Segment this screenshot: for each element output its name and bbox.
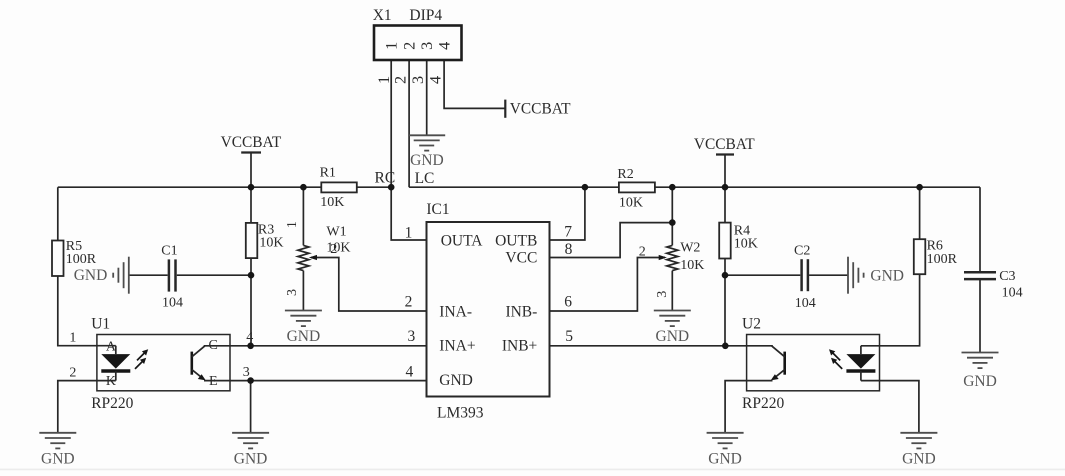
- U1 light arrow upper: [137, 349, 148, 360]
- resistor R4 body: [719, 223, 731, 259]
- wire W1 bottom to ground: [302, 271, 304, 311]
- wire W2 column: [671, 187, 673, 245]
- svg-text:VCCBAT: VCCBAT: [694, 136, 755, 153]
- wire node A ground drop: [250, 381, 252, 433]
- U2 emitter arrowhead: [771, 374, 779, 380]
- U1 light arrow lower: [135, 358, 146, 369]
- svg-text:3: 3: [409, 76, 427, 84]
- svg-text:IC1: IC1: [426, 201, 449, 218]
- svg-text:GND: GND: [410, 152, 444, 169]
- power port VCCBAT left bar: [241, 151, 261, 153]
- junction R4 C2 node: [722, 272, 729, 279]
- wire C1 left to rotated ground: [129, 274, 168, 276]
- svg-text:1: 1: [285, 221, 300, 228]
- svg-text:RP220: RP220: [91, 395, 133, 412]
- W1 wiper arrowhead: [309, 255, 317, 260]
- svg-text:GND: GND: [41, 451, 75, 468]
- svg-text:C1: C1: [161, 244, 177, 259]
- svg-text:104: 104: [162, 296, 183, 311]
- U1 emitter lead: [192, 370, 203, 379]
- svg-text:3: 3: [243, 365, 250, 380]
- svg-text:C2: C2: [794, 244, 810, 259]
- power port VCCBAT top bar: [504, 100, 506, 118]
- U2 LED triangle: [846, 354, 875, 369]
- svg-text:2: 2: [69, 366, 76, 381]
- ground symbol GND LC under X1 pin3: [408, 135, 445, 150]
- svg-text:GND: GND: [656, 328, 690, 345]
- bottom edge strip: [0, 469, 1065, 471]
- U2 emitter to outside: [747, 380, 773, 382]
- svg-text:U1: U1: [91, 316, 110, 333]
- wire IC1 pin2 to W1 wiper: [311, 258, 427, 312]
- svg-text:K: K: [106, 374, 116, 389]
- junction IC GND node: [247, 377, 254, 384]
- wire R3 column VCCBAT to INA+ node: [250, 153, 252, 346]
- svg-text:2: 2: [330, 242, 337, 257]
- wire X1 pin1 to RC node and IC1 pin1: [391, 60, 426, 241]
- resistor R6 body: [914, 239, 926, 274]
- junction W1 top node: [300, 184, 307, 191]
- svg-text:GND: GND: [439, 372, 473, 389]
- wire C3 top drop: [979, 187, 981, 272]
- wire right bus LC net: [409, 186, 980, 188]
- wire X1 pin3 to ground: [426, 60, 428, 136]
- junction INA+ node: [247, 343, 254, 350]
- junction node RC: [388, 184, 395, 191]
- svg-text:INA+: INA+: [439, 337, 475, 354]
- ground symbol bottom left-center: [232, 433, 269, 449]
- svg-text:4: 4: [427, 76, 445, 84]
- ground symbol bottom far left: [39, 433, 76, 449]
- svg-text:3: 3: [285, 289, 300, 296]
- svg-text:GND: GND: [234, 451, 268, 468]
- svg-text:5: 5: [565, 328, 573, 345]
- svg-text:VCC: VCC: [505, 250, 537, 267]
- svg-text:GND: GND: [287, 328, 321, 345]
- svg-text:4: 4: [436, 42, 454, 50]
- svg-text:1: 1: [375, 76, 393, 84]
- wire R6 column to U2 anode: [861, 187, 920, 346]
- svg-text:W1: W1: [326, 224, 346, 239]
- wire U1 collector row to IC1 pin3: [230, 345, 427, 347]
- U1 LED anode lead: [115, 346, 117, 354]
- svg-text:RP220: RP220: [742, 395, 784, 412]
- svg-text:GND: GND: [870, 267, 904, 284]
- power port VCCBAT right bar: [716, 153, 734, 155]
- svg-text:INB-: INB-: [505, 304, 537, 321]
- U2 phototransistor base bar: [783, 352, 786, 375]
- svg-text:W2: W2: [680, 241, 700, 256]
- U1 LED triangle: [101, 354, 130, 369]
- wire IC1 pin7 to LC net: [550, 187, 585, 240]
- capacitor C1 plates: [169, 259, 176, 291]
- svg-text:7: 7: [564, 224, 572, 241]
- junction VCCBAT-left R3 node: [248, 184, 255, 191]
- potentiometer W1 zigzag: [298, 245, 309, 270]
- wire W2 bottom to ground: [671, 271, 673, 311]
- svg-text:2: 2: [405, 293, 413, 310]
- svg-text:LM393: LM393: [437, 404, 484, 421]
- svg-text:100R: 100R: [66, 252, 97, 267]
- svg-text:R2: R2: [617, 167, 633, 182]
- svg-text:100R: 100R: [927, 252, 958, 267]
- svg-text:8: 8: [565, 241, 573, 258]
- svg-text:OUTB: OUTB: [495, 233, 537, 250]
- potentiometer W2 zigzag: [667, 245, 678, 270]
- wire IC1 pin5 row to U2 collector: [550, 345, 747, 347]
- U1 collector lead: [192, 346, 230, 357]
- svg-text:A: A: [106, 339, 117, 354]
- capacitor C2 plates: [802, 259, 808, 291]
- svg-text:10K: 10K: [619, 196, 643, 211]
- wire W1 column: [302, 187, 304, 245]
- svg-text:OUTA: OUTA: [441, 233, 484, 250]
- svg-text:104: 104: [1002, 286, 1023, 301]
- wire U2 cathode to ground: [861, 381, 919, 433]
- wire left bus VCCBAT rail: [58, 186, 391, 188]
- svg-text:INA-: INA-: [439, 304, 472, 321]
- svg-text:1: 1: [69, 330, 76, 345]
- wire R4 node to C2 left: [725, 274, 800, 276]
- ground symbol under W2: [654, 311, 691, 327]
- U2 light arrow lower: [831, 358, 842, 369]
- junction INB+ node: [722, 343, 729, 350]
- W2 wiper arrowhead: [659, 255, 667, 260]
- wire X1 pin2 down to LC net: [408, 60, 410, 188]
- svg-text:DIP4: DIP4: [409, 7, 442, 24]
- junction R6 node: [916, 184, 923, 191]
- rotated ground symbol right of C2: [848, 257, 864, 294]
- svg-text:LC: LC: [415, 170, 435, 187]
- svg-text:1: 1: [405, 225, 413, 242]
- resistor R3 body: [246, 223, 257, 258]
- svg-text:VCCBAT: VCCBAT: [221, 134, 282, 151]
- ground symbol bottom right-center: [707, 433, 744, 449]
- ground symbol bottom far right: [900, 433, 937, 449]
- U1 phototransistor base bar: [191, 352, 194, 375]
- U1 emitter arrowhead: [198, 374, 206, 380]
- resistor R1 body: [321, 182, 357, 192]
- svg-text:GND: GND: [902, 451, 936, 468]
- wire X1 pin4 to VCCBAT port: [444, 60, 505, 109]
- rotated ground symbol left of C1: [113, 257, 129, 294]
- svg-text:VCCBAT: VCCBAT: [510, 100, 571, 117]
- resistor R5 body: [52, 241, 64, 277]
- svg-text:10K: 10K: [734, 237, 758, 252]
- optocoupler U2 body: [747, 335, 880, 391]
- svg-text:10K: 10K: [680, 258, 704, 273]
- U2 emitter lead: [774, 370, 785, 379]
- svg-text:C: C: [209, 338, 218, 353]
- wire U1 emitter row to IC1 pin4: [230, 380, 427, 382]
- connector X1 DIP4 body: [374, 26, 462, 61]
- svg-text:R1: R1: [320, 165, 336, 180]
- wire IC1 pin6 to W2 wiper: [550, 258, 666, 312]
- svg-text:C3: C3: [999, 269, 1015, 284]
- U1 emitter to pin3: [204, 380, 230, 382]
- svg-text:U2: U2: [742, 316, 761, 333]
- svg-text:4: 4: [406, 363, 414, 380]
- junction VCCBAT-right R4 node: [722, 184, 729, 191]
- svg-text:10K: 10K: [320, 195, 344, 210]
- junction pin7 LC node: [582, 184, 589, 191]
- U1 LED cathode lead: [115, 371, 117, 381]
- wire IC1 pin8 VCC to node W2 top: [550, 223, 673, 258]
- op-amp comparator U-IC1 LM393 body: [427, 222, 550, 397]
- U2 LED cathode lead: [860, 371, 862, 381]
- svg-text:2: 2: [401, 42, 419, 50]
- svg-text:GND: GND: [963, 373, 997, 390]
- capacitor C3 plates: [964, 272, 996, 279]
- svg-text:10K: 10K: [259, 236, 283, 251]
- svg-text:104: 104: [795, 296, 816, 311]
- svg-text:3: 3: [655, 291, 670, 298]
- wire U2 emitter to ground: [725, 381, 747, 433]
- svg-text:1: 1: [383, 42, 401, 50]
- svg-text:3: 3: [408, 328, 416, 345]
- U1 LED cathode bar: [101, 369, 130, 373]
- junction VCC W2 node: [669, 219, 676, 226]
- svg-text:2: 2: [639, 245, 646, 260]
- junction C1 R3 node: [248, 272, 255, 279]
- svg-text:INB+: INB+: [502, 337, 537, 354]
- wire C3 bottom to ground: [979, 279, 981, 352]
- U2 LED anode lead: [860, 346, 862, 354]
- U2 LED cathode bar: [846, 369, 875, 373]
- svg-text:X1: X1: [373, 7, 392, 24]
- svg-text:E: E: [209, 374, 218, 389]
- wire U1 pin2 to ground: [58, 381, 116, 433]
- junction R2 W2 node: [669, 184, 676, 191]
- svg-text:GND: GND: [708, 451, 742, 468]
- resistor R2 body: [619, 182, 655, 192]
- ground symbol under C3: [962, 353, 999, 369]
- svg-text:GND: GND: [74, 267, 108, 284]
- wire R5 column to U1 pin1: [58, 187, 116, 346]
- U2 light arrow upper: [829, 349, 840, 360]
- svg-text:6: 6: [564, 293, 572, 310]
- svg-text:2: 2: [392, 76, 410, 84]
- optocoupler U1 body: [97, 335, 230, 391]
- wire C2 right to rotated ground: [809, 274, 848, 276]
- U2 collector lead: [747, 346, 785, 357]
- svg-text:3: 3: [418, 42, 436, 50]
- wire R4 column VCCBAT to INB+ node: [724, 155, 726, 346]
- ground symbol under W1: [285, 311, 322, 327]
- wire C1 right to R3 node: [177, 274, 251, 276]
